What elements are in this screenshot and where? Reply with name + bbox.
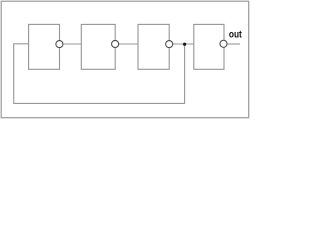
- junction dot feedback node: [183, 43, 186, 46]
- inverter U3 body: [138, 24, 169, 69]
- inversion bubble U1: [56, 41, 63, 48]
- wire feedback left vertical: [13, 44, 15, 104]
- wire U3 to U4: [173, 43, 194, 45]
- inverter U1 body: [29, 24, 60, 69]
- inverter U4 body: [194, 24, 224, 69]
- wire U4 output stub: [227, 43, 240, 45]
- border frame: [1, 1, 249, 118]
- wire feedback right vertical: [184, 44, 186, 103]
- svg-text:out: out: [229, 30, 242, 41]
- wire U1 to U2: [63, 43, 81, 45]
- wire input to U1: [13, 43, 28, 45]
- inversion bubble U3: [166, 41, 173, 48]
- wire feedback bottom horizontal: [13, 102, 185, 104]
- wire U2 to U3: [119, 43, 138, 45]
- inverter U2 body: [81, 24, 115, 69]
- inversion bubble U4: [220, 40, 227, 47]
- inversion bubble U2: [112, 40, 119, 47]
